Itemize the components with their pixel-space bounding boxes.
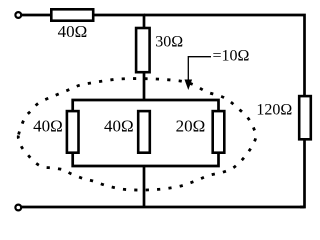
wire: node A down to resistor R2 (143, 14, 146, 29)
svg-text:40Ω: 40Ω (58, 22, 88, 41)
leader arrow for equivalent resistance callout (185, 57, 212, 90)
svg-text:40Ω: 40Ω (33, 117, 63, 136)
resistor R3 body (40Ω left branch) (67, 111, 79, 153)
wire: node C down to bottom wire (143, 165, 146, 208)
wire: R6 down to bottom-right corner (300, 140, 305, 208)
svg-text:20Ω: 20Ω (176, 117, 206, 136)
wire: node A to top-right corner and down to resistor R6 (144, 15, 305, 96)
terminal T2 (bottom-left output) (15, 205, 21, 211)
resistor R5 body (20Ω right branch) (213, 111, 225, 153)
wire: bottom return from terminal T2 to bottom-right corner (22, 206, 305, 209)
svg-text:120Ω: 120Ω (256, 102, 292, 119)
dotted equivalent-resistance boundary (ellipse) (18, 79, 256, 191)
wire: bottom rail of parallel bank (node C) (73, 153, 219, 166)
resistor R1 body (40Ω series) (51, 9, 93, 20)
resistor R4 body (40Ω middle branch) (138, 111, 150, 153)
wire: R2 to node B (top rail of parallel bank) (143, 72, 146, 102)
svg-text:=10Ω: =10Ω (213, 48, 250, 65)
wire: top rail of parallel bank (node B) (73, 100, 219, 111)
resistor R6 body (120Ω) (299, 96, 311, 139)
svg-text:30Ω: 30Ω (155, 34, 183, 51)
terminal T1 (top-left input) (15, 12, 21, 18)
resistor R2 body (30Ω) (136, 28, 150, 72)
wire: T1 to resistor R1 (22, 14, 52, 17)
svg-text:40Ω: 40Ω (104, 117, 134, 136)
wire: R1 to node A (top junction) (94, 14, 146, 17)
